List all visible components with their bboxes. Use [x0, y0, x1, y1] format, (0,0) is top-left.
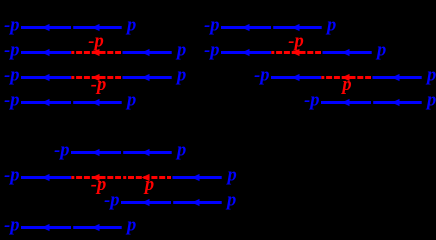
arrowhead A1.1 (blue, pointing left) — [42, 24, 50, 31]
arrowhead A3.2 (red, pointing left) — [92, 74, 100, 81]
wire A3 segment 3 (blue) — [123, 76, 172, 79]
svg-text:p: p — [175, 141, 186, 161]
svg-text:-p: -p — [54, 141, 69, 161]
arrowhead B2.1 (blue, pointing left) — [242, 49, 250, 56]
wire B1 segment 2 (blue) — [273, 26, 322, 29]
svg-text:-p: -p — [104, 191, 119, 211]
svg-text:p: p — [340, 75, 351, 95]
wire A2 segment 3 (blue) — [123, 51, 172, 54]
svg-text:p: p — [125, 216, 136, 236]
arrowhead C1.2 (blue, pointing left) — [142, 149, 150, 156]
svg-text:p: p — [143, 175, 154, 195]
wire B3 segment 1 (blue) — [271, 76, 321, 79]
svg-text:p: p — [226, 166, 237, 186]
wire A2 segment 1 (blue) — [21, 51, 71, 54]
wire C3 segment 2 (blue) — [173, 201, 222, 204]
svg-text:p: p — [375, 41, 386, 61]
svg-text:p: p — [175, 66, 186, 86]
svg-text:-p: -p — [304, 91, 319, 111]
wire A3 segment 1 (blue) — [21, 76, 71, 79]
wire A2 segment 2 (red dashed) — [71, 51, 121, 54]
arrowhead C4.1 (blue, pointing left) — [42, 224, 50, 231]
arrowhead A2.2 (red, pointing left) — [92, 49, 100, 56]
wire A1 segment 1 (blue) — [21, 26, 71, 29]
svg-text:-p: -p — [88, 32, 103, 52]
svg-text:p: p — [175, 41, 186, 61]
wire C2 segment 2 (red dashed) — [71, 176, 121, 179]
wire A3 segment 2 (red dashed) — [71, 76, 121, 79]
svg-text:-p: -p — [204, 41, 219, 61]
wire C1 segment 2 (blue) — [123, 151, 172, 154]
arrowhead A3.3 (blue, pointing left) — [142, 74, 150, 81]
arrowhead C1.1 (blue, pointing left) — [92, 149, 100, 156]
wire B2 segment 1 (blue) — [221, 51, 271, 54]
arrowhead C2.4 (blue, pointing left) — [192, 174, 200, 181]
arrowhead C2.1 (blue, pointing left) — [42, 174, 50, 181]
svg-text:-p: -p — [4, 41, 19, 61]
svg-text:-p: -p — [4, 216, 19, 236]
arrowhead B2.3 (blue, pointing left) — [342, 49, 350, 56]
arrowhead C3.2 (blue, pointing left) — [192, 199, 200, 206]
wire A4 segment 1 (blue) — [21, 101, 71, 104]
wire A4 segment 2 (blue) — [73, 101, 122, 104]
svg-text:-p: -p — [288, 32, 303, 52]
arrowhead C4.2 (blue, pointing left) — [92, 224, 100, 231]
svg-text:-p: -p — [4, 66, 19, 86]
arrowhead B3.3 (blue, pointing left) — [392, 74, 400, 81]
arrowhead A2.1 (blue, pointing left) — [42, 49, 50, 56]
wire B2 segment 2 (red dashed) — [271, 51, 321, 54]
svg-text:-p: -p — [4, 16, 19, 36]
wire C2 segment 4 (blue) — [173, 176, 222, 179]
wire B3 segment 2 (red dashed) — [321, 76, 371, 79]
arrowhead B3.2 (red, pointing left) — [342, 74, 350, 81]
svg-text:-p: -p — [254, 66, 269, 86]
wire B4 segment 1 (blue) — [321, 101, 371, 104]
arrowhead B3.1 (blue, pointing left) — [292, 74, 300, 81]
svg-text:p: p — [125, 91, 136, 111]
arrowhead B1.2 (blue, pointing left) — [292, 24, 300, 31]
arrowhead C3.1 (blue, pointing left) — [142, 199, 150, 206]
arrowhead C2.2 (red, pointing left) — [92, 174, 100, 181]
wire C2 segment 3 (red dashed) — [123, 176, 171, 179]
arrowhead B4.2 (blue, pointing left) — [392, 99, 400, 106]
wire C4 segment 2 (blue) — [73, 226, 122, 229]
arrowhead A3.1 (blue, pointing left) — [42, 74, 50, 81]
svg-text:p: p — [425, 91, 436, 111]
arrowhead C2.3 (red, pointing left) — [142, 174, 150, 181]
svg-text:p: p — [125, 16, 136, 36]
svg-text:-p: -p — [91, 75, 106, 95]
svg-text:p: p — [325, 16, 336, 36]
svg-text:p: p — [225, 191, 236, 211]
arrowhead A1.2 (blue, pointing left) — [92, 24, 100, 31]
svg-text:-p: -p — [4, 91, 19, 111]
wire B1 segment 1 (blue) — [221, 26, 271, 29]
arrowhead B1.1 (blue, pointing left) — [242, 24, 250, 31]
wire B2 segment 3 (blue) — [323, 51, 372, 54]
wire A1 segment 2 (blue) — [73, 26, 122, 29]
arrowhead B4.1 (blue, pointing left) — [342, 99, 350, 106]
wire C3 segment 1 (blue) — [121, 201, 171, 204]
arrowhead A4.1 (blue, pointing left) — [42, 99, 50, 106]
wire C1 segment 1 (blue) — [71, 151, 121, 154]
wire C2 segment 1 (blue) — [21, 176, 71, 179]
arrowhead B2.2 (red, pointing left) — [292, 49, 300, 56]
svg-text:p: p — [425, 66, 436, 86]
wire B4 segment 2 (blue) — [373, 101, 422, 104]
arrowhead A2.3 (blue, pointing left) — [142, 49, 150, 56]
arrowhead A4.2 (blue, pointing left) — [92, 99, 100, 106]
wire C4 segment 1 (blue) — [21, 226, 71, 229]
wire B3 segment 3 (blue) — [373, 76, 422, 79]
svg-text:-p: -p — [204, 16, 219, 36]
svg-text:-p: -p — [4, 166, 19, 186]
